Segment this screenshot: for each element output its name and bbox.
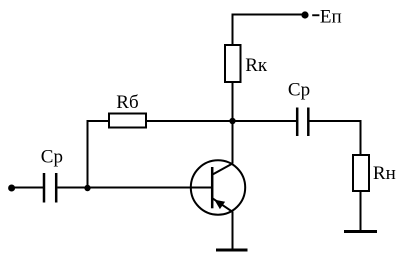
wire Rн to ground [360, 191, 362, 231]
svg-text:Ср: Ср [41, 147, 63, 168]
capacitor Cр input [44, 173, 56, 203]
transistor VT1 [191, 160, 245, 214]
node collector junction dot [229, 118, 235, 124]
node base junction dot [84, 185, 90, 191]
resistor Rб [109, 114, 146, 128]
svg-text:Еп: Еп [320, 7, 342, 28]
capacitor Ср output [297, 108, 308, 137]
wire collector node horizontal [146, 120, 297, 122]
wire emitter to ground [232, 212, 234, 250]
ground emitter [216, 249, 248, 252]
wire capacitor to base junction [58, 187, 88, 189]
power terminal dot [301, 11, 308, 18]
wire input to capacitor [12, 187, 43, 189]
input terminal dot [8, 185, 15, 192]
svg-text:Rн: Rн [373, 163, 396, 184]
ground load [344, 230, 377, 233]
svg-text:Rб: Rб [116, 92, 138, 113]
wire base [88, 187, 212, 189]
wire collector vertical [232, 121, 234, 164]
minus dash of supply label [312, 14, 319, 16]
svg-text:Rк: Rк [245, 55, 268, 76]
wire Rк bottom to collector node [232, 82, 234, 121]
svg-text:Ср: Ср [288, 79, 310, 100]
wire base junction up to Rб [88, 121, 110, 188]
wire output cap to load [310, 121, 361, 155]
resistor Rк [225, 45, 241, 82]
wire top rail to power terminal [233, 15, 306, 46]
resistor Rн [353, 155, 369, 191]
